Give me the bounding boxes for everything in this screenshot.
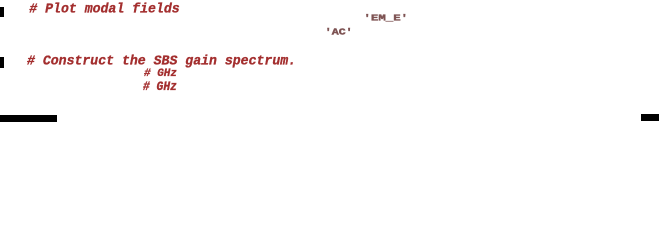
black fragment: left edge middle xyxy=(0,57,4,68)
black fragment: bottom-right bar xyxy=(641,114,659,121)
comment: # Plot modal fields xyxy=(29,2,179,16)
comment: # Construct the SBS gain spectrum. xyxy=(27,54,296,68)
black fragment: left edge upper xyxy=(0,7,4,17)
comment: # GHz (second) xyxy=(143,82,177,95)
string literal 'EM_E' xyxy=(364,14,409,23)
comment: # GHz (first) xyxy=(144,69,177,80)
string literal 'AC' xyxy=(325,28,353,38)
black fragment: bottom-left bar xyxy=(0,115,57,122)
